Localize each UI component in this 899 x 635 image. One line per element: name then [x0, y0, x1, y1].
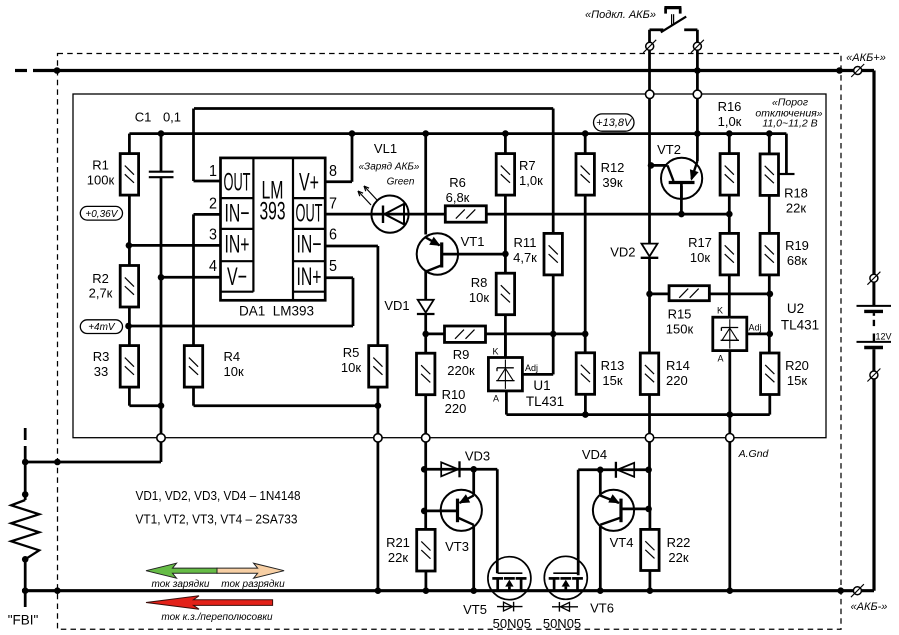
svg-text:33: 33: [94, 364, 108, 379]
svg-text:VD1: VD1: [384, 298, 409, 313]
svg-text:R7: R7: [519, 158, 536, 173]
svg-text:5: 5: [329, 258, 337, 275]
svg-text:VT4: VT4: [610, 535, 634, 550]
svg-text:A: A: [717, 354, 723, 364]
svg-text:ток разрядки: ток разрядки: [221, 579, 285, 590]
svg-text:R20: R20: [785, 358, 809, 373]
svg-text:11,0~11,2 В: 11,0~11,2 В: [762, 118, 817, 130]
svg-text:+0,36V: +0,36V: [85, 209, 118, 220]
svg-text:15к: 15к: [602, 373, 622, 388]
svg-text:393: 393: [260, 198, 286, 226]
svg-text:R1: R1: [92, 158, 109, 173]
svg-text:R18: R18: [784, 186, 808, 201]
svg-text:R13: R13: [601, 358, 625, 373]
svg-text:220: 220: [445, 401, 467, 416]
svg-text:8: 8: [329, 163, 337, 180]
svg-text:22к: 22к: [668, 550, 688, 565]
svg-text:VD2: VD2: [610, 245, 635, 260]
svg-text:R12: R12: [601, 160, 625, 175]
svg-text:R5: R5: [343, 345, 360, 360]
svg-text:15к: 15к: [787, 373, 807, 388]
svg-text:2: 2: [209, 196, 217, 213]
svg-text:4,7к: 4,7к: [513, 250, 537, 265]
svg-text:A.Gnd: A.Gnd: [738, 448, 770, 460]
svg-text:VT1: VT1: [461, 234, 485, 249]
svg-text:VD1, VD2, VD3, VD4 – 1N4148: VD1, VD2, VD3, VD4 – 1N4148: [136, 488, 301, 503]
svg-text:4: 4: [209, 258, 217, 275]
svg-text:DA1 LM393: DA1 LM393: [239, 304, 314, 319]
svg-text:R6: R6: [449, 175, 466, 190]
svg-text:"FBI": "FBI": [8, 613, 39, 628]
svg-text:Adj: Adj: [749, 323, 762, 333]
svg-text:R3: R3: [93, 349, 110, 364]
svg-text:VL1: VL1: [374, 141, 397, 156]
svg-text:1,0к: 1,0к: [519, 173, 543, 188]
svg-text:K: K: [492, 346, 498, 356]
svg-text:2,7к: 2,7к: [89, 286, 113, 301]
svg-text:7: 7: [329, 196, 337, 213]
svg-text:OUT: OUT: [296, 200, 323, 228]
svg-text:U1: U1: [533, 378, 550, 393]
svg-text:R17: R17: [688, 235, 712, 250]
svg-text:V−: V−: [227, 263, 247, 291]
svg-text:U2: U2: [787, 301, 804, 316]
svg-text:10к: 10к: [224, 364, 244, 379]
svg-text:TL431: TL431: [781, 318, 819, 333]
svg-text:3: 3: [209, 227, 217, 244]
svg-text:V+: V+: [299, 169, 319, 197]
svg-text:6: 6: [329, 227, 337, 244]
svg-text:22к: 22к: [388, 550, 408, 565]
svg-text:«Заряд АКБ»: «Заряд АКБ»: [359, 162, 420, 173]
svg-text:«АКБ-»: «АКБ-»: [851, 601, 888, 613]
svg-text:K: K: [717, 306, 723, 316]
svg-text:150к: 150к: [666, 322, 694, 337]
svg-text:R15: R15: [668, 307, 692, 322]
svg-text:«Подкл. АКБ»: «Подкл. АКБ»: [585, 9, 656, 21]
svg-text:A: A: [493, 394, 499, 404]
svg-text:R9: R9: [453, 347, 470, 362]
svg-text:+13,8V: +13,8V: [596, 117, 633, 129]
svg-text:R21: R21: [386, 535, 410, 550]
svg-text:IN−: IN−: [297, 231, 322, 259]
svg-text:1,0к: 1,0к: [718, 114, 742, 129]
svg-text:100к: 100к: [87, 173, 115, 188]
svg-text:R10: R10: [442, 387, 466, 402]
svg-text:VT3: VT3: [445, 539, 469, 554]
svg-text:R19: R19: [785, 238, 809, 253]
svg-text:R16: R16: [718, 99, 742, 114]
svg-text:12V: 12V: [876, 332, 892, 342]
svg-text:ток к.з./переполюсовки: ток к.з./переполюсовки: [161, 612, 273, 623]
svg-text:Green: Green: [387, 177, 415, 188]
svg-text:VT5: VT5: [463, 602, 487, 617]
svg-text:R14: R14: [666, 358, 690, 373]
svg-text:VT6: VT6: [590, 601, 614, 616]
svg-text:220к: 220к: [447, 363, 475, 378]
svg-text:22к: 22к: [786, 201, 806, 216]
svg-text:R22: R22: [667, 535, 691, 550]
svg-text:C1: C1: [135, 110, 152, 125]
svg-text:TL431: TL431: [526, 394, 564, 409]
svg-text:IN+: IN+: [225, 231, 250, 259]
svg-text:R8: R8: [471, 275, 488, 290]
svg-text:50N05: 50N05: [543, 616, 581, 631]
svg-text:VD3: VD3: [465, 449, 490, 464]
svg-text:10к: 10к: [341, 360, 361, 375]
svg-text:0,1: 0,1: [163, 110, 181, 125]
svg-text:IN+: IN+: [297, 263, 322, 291]
svg-text:R4: R4: [224, 349, 241, 364]
svg-text:+4mV: +4mV: [88, 322, 116, 333]
svg-text:10к: 10к: [690, 250, 710, 265]
svg-text:220: 220: [666, 373, 688, 388]
svg-text:OUT: OUT: [224, 169, 251, 197]
svg-text:68к: 68к: [787, 253, 807, 268]
svg-text:«АКБ+»: «АКБ+»: [846, 52, 886, 64]
svg-text:R11: R11: [514, 235, 537, 250]
svg-text:VT1, VT2, VT3, VT4 – 2SA733: VT1, VT2, VT3, VT4 – 2SA733: [136, 512, 298, 527]
svg-text:R2: R2: [92, 271, 109, 286]
svg-text:39к: 39к: [602, 175, 622, 190]
svg-text:IN−: IN−: [225, 200, 250, 228]
svg-text:Adj: Adj: [525, 363, 538, 373]
svg-text:10к: 10к: [469, 290, 489, 305]
svg-text:ток зарядки: ток зарядки: [152, 579, 210, 590]
svg-text:6,8к: 6,8к: [446, 190, 470, 205]
svg-text:50N05: 50N05: [493, 616, 531, 631]
svg-text:VD4: VD4: [582, 447, 607, 462]
svg-text:1: 1: [209, 163, 217, 180]
svg-text:VT2: VT2: [657, 142, 681, 157]
